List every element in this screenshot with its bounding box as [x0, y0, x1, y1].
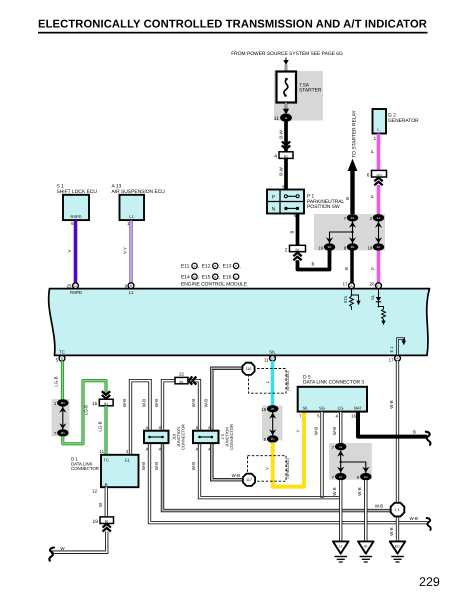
svg-text:CG: CG [338, 406, 344, 411]
svg-text:STARTER: STARTER [299, 88, 322, 94]
svg-text:B: B [214, 264, 216, 268]
junction internal branch to 19 [326, 232, 353, 244]
svg-text:18: 18 [261, 407, 266, 412]
svg-text:P: P [272, 195, 275, 201]
data link connector 3 D5 [298, 374, 367, 418]
svg-text:229: 229 [419, 575, 440, 589]
svg-text:2A: 2A [377, 245, 381, 249]
junction oval 7 green [54, 429, 69, 436]
shade junction block CG [329, 443, 372, 480]
svg-text:Y: Y [296, 429, 301, 432]
junction internal 7-8 [349, 222, 356, 244]
svg-text:16: 16 [92, 401, 98, 407]
wire W-B DLC3 CG down to junction 7 [332, 412, 341, 443]
svg-text:LG-B: LG-B [84, 405, 89, 415]
connector 4 (B1) [274, 152, 293, 160]
svg-text:I 1: I 1 [395, 507, 400, 512]
svg-text:E: E [214, 275, 216, 279]
svg-text:17: 17 [389, 358, 394, 363]
svg-text:D 5: D 5 [303, 374, 311, 380]
svg-text:W-B: W-B [204, 399, 209, 407]
shield box Y [248, 456, 291, 482]
squiggle right edge B [426, 432, 431, 445]
wire W-B shield drain J3 right down to 117 [212, 443, 243, 479]
svg-text:B1: B1 [296, 248, 300, 252]
svg-text:W-B: W-B [389, 527, 394, 535]
junction internal 18-5 [269, 413, 276, 436]
svg-text:DATA LINK CONNECTOR 3: DATA LINK CONNECTOR 3 [303, 380, 364, 386]
ECM pin 9 L1 [125, 283, 134, 295]
wire W-B DLC3 SG down [314, 412, 323, 498]
svg-text:BAT: BAT [354, 406, 362, 411]
wire W DLC1 E1 to J10 [122, 381, 150, 455]
svg-text:22: 22 [179, 372, 184, 377]
ECM pin 25 RSPD [67, 283, 82, 295]
svg-text:,: , [198, 275, 199, 280]
connector 16 (B1) [92, 399, 113, 407]
svg-text:FROM POWER SOURCE SYSTEM SEE P: FROM POWER SOURCE SYSTEM SEE PAGE 6G [231, 51, 343, 57]
wire W-B octagon I1 to ground 3 [389, 516, 398, 541]
wire B-W 4 to P1 [279, 158, 286, 189]
chevrons left into connector 22 [189, 377, 197, 385]
wire W-B J10 right down to I1 [154, 443, 391, 510]
junction oval 18 [367, 243, 384, 250]
svg-text:V: V [67, 249, 72, 252]
svg-text:W-B: W-B [142, 399, 147, 407]
svg-text:L1: L1 [129, 290, 134, 295]
svg-text:,: , [239, 265, 240, 270]
svg-text:4: 4 [274, 154, 277, 160]
junction connector J10 [144, 424, 186, 451]
svg-text:W-B: W-B [232, 473, 240, 478]
svg-text:18: 18 [367, 245, 372, 250]
generator G2 [373, 109, 419, 141]
svg-text:6: 6 [367, 173, 370, 179]
shade behind starter fuse [274, 71, 323, 121]
svg-text:P: P [377, 284, 379, 288]
park/neutral position switch P1 [267, 190, 344, 219]
svg-text:2A: 2A [377, 216, 381, 220]
svg-text:STA: STA [343, 295, 348, 303]
svg-text:,: , [219, 275, 220, 280]
chevrons into connector 4 [282, 142, 290, 150]
squiggle left edge W [49, 548, 54, 561]
wire L shielded ECM SIL to junction 18 [271, 361, 275, 405]
svg-text:A: A [196, 446, 199, 451]
connector 2 (B1) [285, 245, 306, 253]
svg-text:E13: E13 [223, 264, 232, 270]
svg-text:1C1: 1C1 [376, 173, 382, 177]
svg-text:W-B: W-B [389, 400, 394, 408]
svg-text:2A: 2A [328, 245, 332, 249]
wire B junction 8 to ECM STA [344, 251, 352, 283]
junction connector J3 [193, 424, 234, 451]
svg-text:D: D [193, 275, 195, 279]
svg-text:1F: 1F [339, 475, 343, 479]
wire fuse feed [285, 65, 287, 73]
wire fuse to connector 11 [285, 103, 287, 114]
svg-text:W-B: W-B [357, 487, 362, 495]
svg-text:B-W: B-W [279, 166, 284, 175]
chevrons into connector 16 [102, 391, 110, 398]
svg-text:1L: 1L [284, 116, 288, 120]
shade junction block upper [314, 214, 385, 250]
ground 3 [390, 541, 406, 562]
svg-text:V-Y: V-Y [122, 247, 127, 254]
svg-text:W-B: W-B [332, 487, 337, 495]
svg-text:IE: IE [364, 545, 368, 549]
svg-text:-B: -B [104, 482, 108, 487]
shift lock ECU S1 [57, 184, 98, 227]
wire W-B ECM E1 to octagon I1 [389, 361, 398, 503]
svg-text:A: A [196, 425, 199, 430]
svg-text:B1: B1 [284, 154, 288, 158]
svg-text:B1: B1 [104, 402, 108, 406]
junction oval 7 [344, 214, 359, 221]
chevrons up from connector 19 [103, 524, 111, 532]
svg-text:SG: SG [319, 406, 325, 411]
svg-text:B: B [345, 197, 350, 200]
wire Y shielded junction 5 to DLC3 SIL [273, 412, 304, 487]
chevrons up from connector 6 [374, 178, 382, 186]
shade junction block shielded (SIL) [262, 406, 283, 441]
junction oval 18 shielded [261, 405, 278, 412]
svg-text:RSPD: RSPD [70, 214, 81, 219]
wire LG-B connector 16 to DLC1 [97, 406, 106, 455]
svg-text:W-B: W-B [314, 427, 319, 435]
svg-text:P: P [370, 195, 375, 198]
svg-text:POSITION SW: POSITION SW [307, 204, 340, 210]
svg-text:A: A [146, 446, 149, 451]
ECM internal STA circuit [343, 288, 361, 310]
svg-text:G 2: G 2 [388, 113, 396, 119]
chevrons up from connector 2 [293, 253, 301, 261]
wire LG-B pin5 to junction 1 [54, 361, 63, 399]
svg-text:W-B: W-B [191, 462, 196, 470]
octagon connector 117 [243, 474, 255, 486]
junction internal CG split [337, 450, 369, 473]
svg-text:GENERATOR: GENERATOR [388, 118, 419, 124]
svg-text:Y: Y [265, 467, 270, 470]
wire W-B J10 left down loop to right edge [141, 443, 427, 522]
svg-text:2: 2 [285, 247, 288, 253]
connector 22 (B1) [175, 372, 188, 384]
svg-text:SIL: SIL [269, 349, 276, 354]
svg-text:2F: 2F [271, 407, 275, 411]
junction oval 9 CG lower [357, 473, 372, 480]
wire V S1 to ECM RSPD [67, 221, 76, 283]
svg-text:E15: E15 [202, 274, 211, 280]
svg-text:1J: 1J [339, 445, 343, 449]
svg-text:TC: TC [104, 458, 109, 463]
wire W DLC1 pin 12 to connector 19 [92, 487, 106, 517]
junction oval 8 [344, 243, 358, 250]
svg-text:B: B [289, 230, 294, 233]
octagon connector 116 [212, 363, 255, 375]
svg-text:E11: E11 [181, 264, 190, 270]
svg-text:26: 26 [370, 282, 375, 287]
svg-text:N: N [272, 207, 276, 213]
wire V-Y A13 to ECM L1 [122, 221, 131, 283]
junction oval 19 [318, 243, 335, 250]
ECM pin 5 TC bottom [56, 349, 65, 362]
svg-text:11: 11 [264, 358, 269, 363]
wire W-B shield drain J3 right up to 116 [204, 368, 243, 431]
junction oval 2 [370, 214, 385, 221]
svg-text:S 1: S 1 [57, 184, 65, 190]
svg-text:(SHIELDED): (SHIELDED) [286, 458, 290, 478]
svg-text:B: B [344, 267, 349, 270]
svg-text:B: B [312, 262, 315, 267]
svg-text:E1: E1 [125, 458, 131, 463]
svg-text:A: A [208, 446, 211, 451]
svg-text:P 1: P 1 [307, 194, 315, 200]
svg-text:LG-B: LG-B [54, 376, 59, 386]
svg-text:(SHIELDED): (SHIELDED) [286, 371, 290, 391]
junction oval 7 CG lower [332, 473, 347, 480]
ground 2 [358, 541, 374, 562]
svg-text:SIL: SIL [302, 406, 309, 411]
svg-text:ELECTRONICALLY CONTROLLED TRAN: ELECTRONICALLY CONTROLLED TRANSMISSION A… [38, 19, 427, 31]
svg-text:P: P [370, 150, 375, 153]
ECM pin 17 STA [343, 282, 355, 289]
ECM internal E1 ground [389, 339, 406, 356]
connector 6 [367, 170, 387, 178]
svg-text:W-B: W-B [154, 462, 159, 470]
title [38, 19, 428, 34]
svg-text:W-B: W-B [332, 427, 337, 435]
squiggle right edge W-B [427, 518, 431, 530]
svg-text:C: C [235, 264, 237, 268]
svg-text:LG-B: LG-B [97, 421, 102, 431]
svg-text:19: 19 [93, 519, 99, 525]
ECM pin 17 E1 bottom [389, 355, 401, 362]
svg-text:117: 117 [246, 478, 252, 482]
svg-text:,: , [198, 265, 199, 270]
wire B-W 11 to 4 [279, 122, 286, 153]
ground 1 [333, 541, 349, 562]
connector oval 11 [274, 114, 292, 122]
svg-text:17: 17 [343, 282, 348, 287]
svg-text:19: 19 [318, 245, 323, 250]
svg-text:E14: E14 [181, 274, 190, 280]
svg-text:IJ: IJ [339, 545, 342, 549]
svg-text:TO STARTER RELAY: TO STARTER RELAY [352, 110, 358, 158]
data link connector 1 D1 [71, 455, 139, 487]
svg-text:W-B: W-B [154, 399, 159, 407]
svg-text:2B: 2B [351, 245, 355, 249]
junction oval 7 CG top [332, 443, 347, 450]
connector 19 (B1) [93, 517, 114, 525]
svg-text:P: P [370, 267, 375, 270]
ECM internal NL circuit [370, 288, 385, 325]
wire B DLC3 BAT to right continuation [358, 412, 427, 437]
svg-text:W-B: W-B [410, 516, 418, 521]
svg-text:RSPD: RSPD [70, 290, 82, 295]
svg-text:25: 25 [67, 284, 72, 289]
svg-text:A: A [159, 425, 162, 430]
svg-text:116: 116 [246, 367, 252, 371]
svg-text:W-B: W-B [191, 399, 196, 407]
wire W-B to ground 1 [332, 480, 341, 541]
svg-text:16: 16 [351, 414, 356, 419]
svg-text:A: A [208, 425, 211, 430]
svg-text:CONNECTOR: CONNECTOR [181, 424, 186, 450]
svg-text:E16: E16 [223, 274, 232, 280]
junction oval 1 [54, 399, 69, 406]
to starter relay arrow [345, 110, 358, 214]
junction internal 2-18 [375, 222, 382, 244]
svg-text:CONNECTOR 1: CONNECTOR 1 [71, 466, 103, 471]
wire P connector 6 to junction 2 [370, 185, 379, 215]
svg-text:B1: B1 [180, 380, 184, 384]
svg-text:A 13: A 13 [112, 184, 122, 190]
svg-text:2A: 2A [351, 216, 355, 220]
svg-text:L1: L1 [129, 214, 134, 219]
shade junction block green (DLC1 branch) [52, 399, 70, 436]
svg-text:W-B: W-B [375, 503, 383, 508]
wire W connector 19 to left continuation [51, 532, 107, 553]
ECM pin 11 SIL bottom [264, 349, 276, 362]
svg-text:EC: EC [395, 545, 400, 549]
arrow from power source [283, 58, 288, 66]
wire P junction 18 to ECM NL [370, 251, 378, 283]
svg-text:F: F [235, 275, 237, 279]
engine control module band [49, 289, 430, 356]
svg-text:PARK/NEUTRAL: PARK/NEUTRAL [307, 199, 344, 205]
wire W-B J10 right to connector 22 to J3 [154, 381, 200, 431]
wire B P1 to connector 2 [289, 214, 297, 246]
wire P generator to connector 6 [370, 134, 379, 171]
svg-text:NL: NL [370, 294, 375, 300]
junction internal 1-7 [59, 407, 66, 430]
svg-text:,: , [219, 265, 220, 270]
wire LG-B junction 7 to connector 16 [63, 381, 106, 444]
wire W-B to ground 2 [357, 480, 366, 541]
svg-text:W-B: W-B [141, 462, 146, 470]
svg-text:A: A [194, 264, 196, 268]
svg-text:E 1: E 1 [389, 346, 394, 353]
octagon connector I1 [391, 503, 405, 517]
svg-text:A: A [159, 446, 162, 451]
fuse 7.5A STARTER [277, 72, 322, 103]
svg-text:11: 11 [274, 116, 279, 122]
svg-text:B-W: B-W [279, 129, 284, 138]
svg-text:ENGINE CONTROL MODULE: ENGINE CONTROL MODULE [181, 282, 248, 288]
svg-text:TC: TC [59, 349, 65, 354]
ECM pin 26 NL [370, 282, 382, 289]
air suspension ECU A13 [112, 184, 166, 227]
shield box L [249, 369, 291, 394]
svg-text:W-B: W-B [122, 399, 127, 407]
wire B to junction 19 [298, 250, 330, 269]
wire W-B J3 left down to ground junction [191, 443, 341, 497]
svg-text:12: 12 [92, 489, 97, 494]
svg-text:11: 11 [99, 449, 104, 454]
svg-text:CONNECTOR: CONNECTOR [229, 424, 234, 450]
arrow into connector 11 [283, 109, 289, 114]
svg-text:B: B [413, 429, 416, 434]
svg-text:E12: E12 [202, 264, 211, 270]
junction oval 5 shielded [264, 435, 279, 442]
ECM connector legend [181, 263, 248, 287]
svg-text:A: A [146, 425, 149, 430]
